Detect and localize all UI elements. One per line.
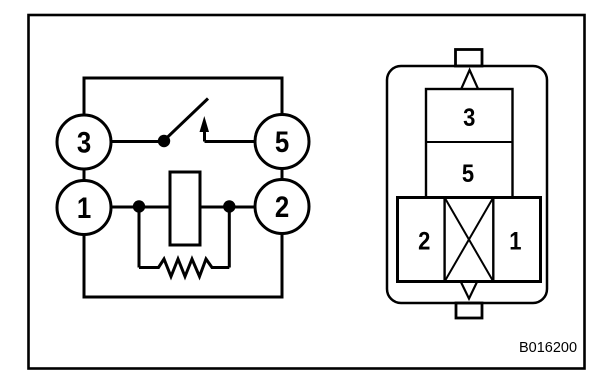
svg-text:1: 1: [77, 191, 91, 224]
svg-text:B016200: B016200: [519, 340, 577, 356]
svg-text:3: 3: [463, 104, 475, 132]
svg-text:1: 1: [509, 227, 521, 255]
svg-text:5: 5: [462, 160, 474, 188]
svg-text:2: 2: [418, 227, 430, 255]
svg-text:5: 5: [275, 125, 289, 158]
svg-text:2: 2: [275, 190, 289, 223]
svg-text:3: 3: [77, 126, 91, 159]
